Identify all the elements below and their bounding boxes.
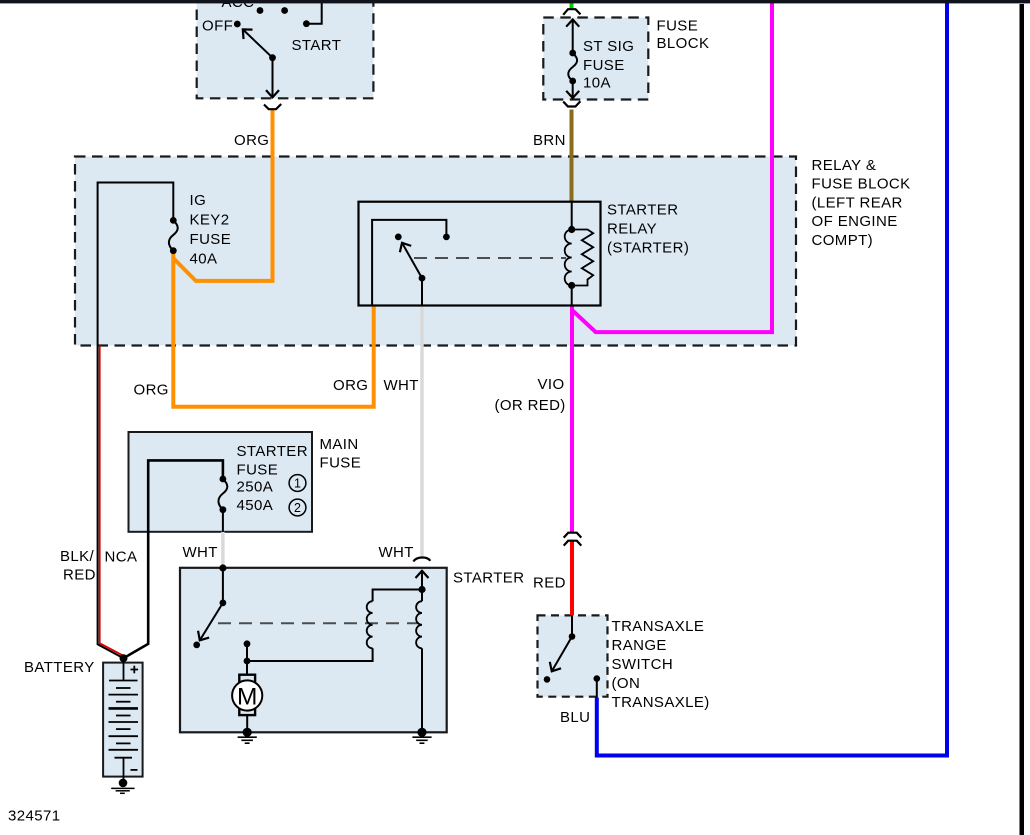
svg-text:M: M — [237, 683, 257, 710]
frame — [0, 0, 1030, 3]
starter M1 pull-in coil — [367, 601, 373, 648]
ignition switch box — [197, 0, 374, 98]
connector below fuse block — [563, 101, 580, 106]
transaxle range switch S2 arm — [552, 637, 572, 672]
svg-text:OFF: OFF — [202, 18, 233, 35]
svg-text:STARTER: STARTER — [237, 443, 308, 460]
starter M1 switch arm — [200, 603, 223, 640]
battery B1 positive node — [120, 654, 128, 662]
fuse F3 output wire — [222, 510, 224, 532]
transaxle range switch box — [538, 615, 608, 696]
svg-text:40A: 40A — [190, 251, 218, 268]
starter relay K1 coil input wire — [571, 202, 573, 230]
wire VIO relay down to inline connector — [570, 306, 574, 533]
svg-text:WHT: WHT — [183, 544, 218, 561]
battery B1 positive stem — [123, 658, 125, 680]
relay and fuse block box — [75, 157, 796, 346]
wire BLK/RED red part to battery — [100, 346, 125, 657]
ignition switch S1 contacts — [234, 7, 310, 61]
starter relay K1 coil terminals — [568, 226, 575, 289]
svg-text:FUSE: FUSE — [320, 455, 362, 472]
svg-text:WHT: WHT — [384, 377, 419, 394]
transaxle range switch S2 output wire — [596, 679, 598, 698]
svg-text:ORG: ORG — [234, 132, 269, 149]
svg-text:FUSE: FUSE — [583, 57, 625, 74]
battery B1 negative stem — [123, 758, 125, 777]
svg-text:ST SIG: ST SIG — [583, 38, 634, 55]
svg-text:OF ENGINE: OF ENGINE — [812, 213, 898, 230]
starter M1 switch input node — [193, 564, 226, 648]
starter M1 actuator dashed link — [218, 622, 419, 624]
svg-text:FUSE: FUSE — [657, 18, 699, 35]
battery B1 ground node — [119, 779, 128, 788]
wire MAG relay to right edge going up — [572, 3, 772, 332]
svg-text:RANGE: RANGE — [612, 637, 667, 654]
connector above starter WHT entry — [413, 558, 430, 562]
fuse F3 starter fuse element — [218, 479, 227, 510]
wire WHT relay switch to starter — [420, 306, 423, 557]
battery B1 plates — [109, 681, 139, 758]
fuse F2 terminals — [170, 217, 177, 254]
svg-text:RED: RED — [533, 575, 566, 592]
starter relay K1 actuator dashed link — [414, 257, 566, 259]
svg-text:COMPT): COMPT) — [812, 232, 874, 249]
svg-text:WHT: WHT — [379, 544, 414, 561]
fuse block box — [543, 18, 648, 100]
svg-text:STARTER: STARTER — [607, 202, 678, 219]
wire BLU transaxle range switch to right edge going up — [597, 3, 947, 756]
wire ORG fuse IG KEY2 down to starter relay — [173, 252, 373, 407]
label circled 2 — [289, 499, 306, 516]
battery B1 minus sign — [131, 769, 138, 771]
starter box — [180, 568, 447, 733]
transaxle range switch S2 input wire — [571, 615, 573, 633]
svg-text:MAIN: MAIN — [320, 436, 359, 453]
battery box — [103, 663, 143, 777]
wire ORG ignition switch to relay box — [173, 110, 272, 281]
battery B1 plus sign — [131, 666, 139, 674]
svg-text:1: 1 — [294, 477, 301, 491]
svg-text:BRN: BRN — [533, 132, 566, 149]
wire START contact to top — [306, 3, 321, 24]
wire BRN fuse block to starter relay — [570, 110, 574, 202]
svg-text:450A: 450A — [237, 497, 274, 514]
starter relay K1 switch output wire — [421, 278, 423, 305]
label circled 1 — [289, 475, 306, 492]
starter M1 coil terminal node — [244, 586, 426, 664]
svg-text:BLOCK: BLOCK — [657, 35, 710, 52]
starter M1 pull-in coil bottom wire — [247, 648, 373, 661]
svg-text:250A: 250A — [237, 479, 274, 496]
starter relay K1 internal wire — [372, 220, 446, 306]
svg-text:NCA: NCA — [105, 549, 138, 566]
svg-text:RED: RED — [63, 567, 96, 584]
ground G2 under solenoid — [412, 737, 431, 743]
inline connector on VIO/RED wire — [564, 533, 582, 538]
motor M ground wire — [246, 715, 248, 732]
svg-text:BATTERY: BATTERY — [24, 659, 95, 676]
ground G1 under motor — [238, 737, 257, 743]
wire BLK/RED black part battery to relay box fuse — [98, 183, 174, 659]
ignition switch output wire with arrow — [272, 58, 274, 98]
wire RED connector to transaxle range switch — [570, 541, 574, 616]
starter M1 hold-in coil ground wire — [421, 648, 423, 732]
starter M1 solenoid wire top — [373, 590, 422, 602]
svg-text:10A: 10A — [583, 75, 611, 92]
starter M1 entry arrow right — [421, 571, 423, 590]
fuse F1 terminals — [569, 50, 576, 85]
svg-text:FUSE: FUSE — [190, 231, 232, 248]
svg-text:RELAY: RELAY — [607, 221, 657, 238]
svg-text:RELAY &: RELAY & — [812, 157, 877, 174]
wire WHT main fuse to starter — [221, 532, 224, 567]
starter M1 motor feed wire — [246, 644, 248, 675]
svg-text:TRANSAXLE): TRANSAXLE) — [612, 694, 710, 711]
wire NCA battery to main fuse — [124, 460, 223, 658]
motor M body — [232, 680, 262, 710]
svg-text:STARTER: STARTER — [453, 570, 524, 587]
connector above fuse block — [563, 9, 580, 15]
motor M brush housing — [239, 675, 255, 715]
fuse F3 terminals — [220, 476, 227, 514]
ground G3 under battery — [111, 788, 134, 793]
starter M1 ground nodes — [243, 728, 427, 737]
svg-text:ORG: ORG — [134, 382, 169, 399]
svg-text:BLU: BLU — [560, 709, 590, 726]
svg-text:(LEFT REAR: (LEFT REAR — [812, 195, 903, 212]
svg-text:(STARTER): (STARTER) — [607, 240, 689, 257]
svg-text:(OR RED): (OR RED) — [495, 397, 566, 414]
BOXES — [75, 0, 796, 777]
svg-text:324571: 324571 — [8, 808, 60, 825]
svg-text:FUSE BLOCK: FUSE BLOCK — [812, 176, 911, 193]
fuse F1 ST SIG input arrow — [572, 20, 574, 54]
starter relay K1 switch contacts — [395, 234, 450, 282]
starter M1 hold-in coil top wire — [421, 590, 423, 602]
starter relay K1 case — [359, 202, 601, 306]
starter relay K1 movable arm — [402, 243, 422, 278]
svg-text:VIO: VIO — [538, 376, 565, 393]
starter relay K1 coil resistor zigzag — [572, 230, 594, 286]
ignition switch S1 rotor arm — [243, 29, 273, 57]
svg-text:FUSE: FUSE — [237, 462, 279, 479]
svg-text:TRANSAXLE: TRANSAXLE — [612, 618, 705, 635]
fuse F1 output arrow — [572, 81, 574, 98]
starter M1 switch input wire — [222, 568, 224, 603]
main fuse box — [129, 432, 313, 532]
wire GRN stub at top of fuse block — [570, 3, 574, 10]
starter M1 hold-in coil — [416, 601, 422, 648]
svg-text:START: START — [292, 37, 342, 54]
svg-text:(ON: (ON — [612, 675, 641, 692]
starter relay K1 coil — [565, 230, 572, 286]
battery B1 ground wire — [123, 777, 125, 783]
svg-text:2: 2 — [294, 501, 301, 515]
starter relay K1 coil output wire — [571, 286, 573, 306]
transaxle range switch S2 contacts — [544, 633, 600, 683]
svg-text:KEY2: KEY2 — [190, 212, 230, 229]
svg-text:ORG: ORG — [333, 377, 368, 394]
svg-text:BLK/: BLK/ — [60, 548, 95, 565]
svg-text:SWITCH: SWITCH — [612, 656, 674, 673]
fuse F2 IG KEY2 element — [169, 220, 178, 250]
svg-text:IG: IG — [190, 192, 207, 209]
connector below ignition switch — [264, 104, 281, 109]
fuse F1 ST SIG element — [568, 53, 577, 81]
